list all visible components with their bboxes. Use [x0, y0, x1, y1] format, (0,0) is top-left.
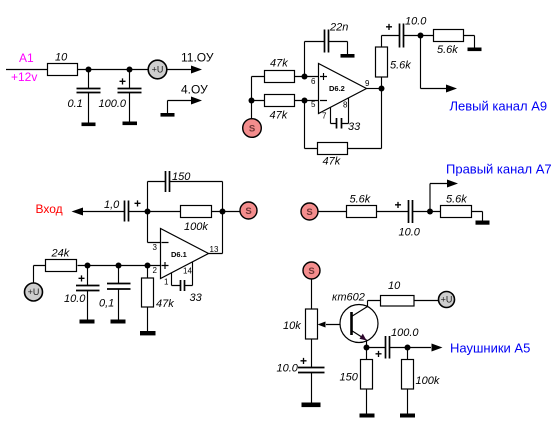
svg-text:10: 10 [55, 52, 68, 64]
svg-text:10: 10 [388, 280, 401, 292]
svg-text:22n: 22n [329, 22, 348, 34]
svg-text:+: + [119, 75, 126, 89]
svg-text:10.0: 10.0 [399, 227, 421, 239]
svg-text:5.6k: 5.6k [350, 194, 371, 206]
svg-text:+U: +U [152, 65, 164, 75]
svg-text:100.0: 100.0 [99, 98, 127, 110]
svg-text:47k: 47k [270, 58, 288, 70]
svg-text:150: 150 [172, 171, 191, 183]
svg-text:0.1: 0.1 [68, 98, 83, 110]
svg-text:0,1: 0,1 [99, 298, 114, 310]
svg-text:S: S [249, 124, 255, 135]
svg-text:A1: A1 [19, 51, 34, 65]
svg-text:5.6k: 5.6k [446, 194, 467, 206]
svg-text:100k: 100k [416, 375, 440, 387]
svg-text:47k: 47k [323, 156, 341, 168]
svg-text:3: 3 [153, 243, 158, 252]
svg-text:D6.1: D6.1 [171, 250, 187, 259]
svg-text:5.6k: 5.6k [437, 44, 458, 56]
svg-text:10k: 10k [283, 320, 301, 332]
svg-text:S: S [308, 266, 314, 277]
svg-text:+: + [134, 197, 141, 211]
svg-text:+: + [386, 20, 393, 34]
svg-text:Вход: Вход [36, 202, 63, 216]
svg-text:33: 33 [190, 292, 203, 304]
svg-text:24k: 24k [51, 248, 70, 260]
svg-text:47k: 47k [156, 298, 174, 310]
svg-text:10.0: 10.0 [405, 16, 427, 28]
svg-text:5.6k: 5.6k [390, 60, 411, 72]
svg-text:9: 9 [365, 79, 370, 88]
svg-text:+: + [78, 272, 85, 286]
svg-text:100k: 100k [184, 221, 208, 233]
svg-text:Наушники А5: Наушники А5 [450, 341, 530, 356]
svg-text:8: 8 [343, 101, 348, 110]
svg-text:+U: +U [28, 287, 40, 297]
svg-text:13: 13 [210, 245, 219, 254]
svg-text:1: 1 [164, 278, 169, 287]
svg-text:+: + [395, 198, 402, 212]
svg-text:+: + [300, 354, 307, 368]
svg-text:100.0: 100.0 [391, 327, 419, 339]
svg-text:10.0: 10.0 [277, 363, 299, 375]
svg-text:11.ОУ: 11.ОУ [181, 51, 214, 65]
svg-text:+12v: +12v [11, 70, 37, 84]
svg-text:Правый канал А7: Правый канал А7 [446, 162, 552, 177]
svg-text:47k: 47k [270, 110, 288, 122]
svg-text:7: 7 [322, 112, 327, 121]
svg-text:кт602: кт602 [332, 292, 365, 304]
svg-text:10.0: 10.0 [64, 293, 86, 305]
svg-text:150: 150 [340, 372, 359, 384]
svg-text:5: 5 [311, 100, 316, 109]
svg-text:4.ОУ: 4.ОУ [181, 83, 208, 97]
svg-text:Левый канал А9: Левый канал А9 [450, 99, 548, 114]
svg-text:33: 33 [348, 121, 361, 133]
svg-text:S: S [245, 206, 251, 217]
svg-text:14: 14 [183, 267, 192, 276]
svg-text:6: 6 [311, 77, 316, 86]
svg-text:S: S [306, 207, 312, 218]
svg-text:D6.2: D6.2 [329, 84, 345, 93]
svg-text:1,0: 1,0 [104, 199, 120, 211]
svg-text:2: 2 [153, 266, 158, 275]
svg-text:+U: +U [441, 295, 453, 305]
svg-text:+: + [375, 347, 382, 361]
